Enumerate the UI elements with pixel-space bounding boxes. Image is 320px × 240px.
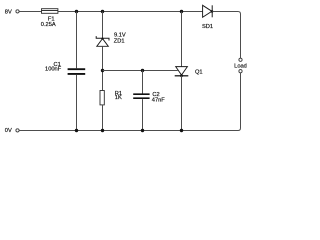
node Load bottom terminal [239, 70, 242, 73]
wire C2 branch lower [142, 99, 144, 130]
fuse F1 [41, 9, 58, 28]
svg-text:1K: 1K [115, 95, 122, 101]
node 0V terminal [5, 128, 19, 134]
wire C2 branch upper [142, 71, 144, 94]
node junction dot top / C1 [75, 10, 78, 13]
node junction dot bottom / C1 [75, 129, 78, 132]
svg-text:9.1V: 9.1V [114, 32, 126, 38]
wire C1 branch upper [76, 12, 78, 69]
capacitor C2 [133, 92, 165, 103]
node Load top terminal [239, 58, 242, 61]
node junction dot gate / ZD1-R1 [101, 69, 104, 72]
wire top rail right + corner to Load [213, 12, 241, 59]
zener diode ZD1 [96, 32, 126, 46]
svg-text:0V: 0V [5, 128, 12, 134]
wire gate to Q1 [103, 70, 178, 72]
node junction dot bottom / R1 [101, 129, 104, 132]
resistor R1 [100, 91, 122, 105]
node 8V terminal [5, 9, 19, 15]
wire ZD1 branch upper [102, 12, 104, 38]
svg-text:Load: Load [234, 64, 247, 70]
node junction dot bottom / Q1 [180, 129, 183, 132]
wire top rail middle [58, 11, 203, 13]
wire R1 to bottom rail [102, 105, 104, 131]
svg-text:100nF: 100nF [45, 67, 62, 73]
wire C1 branch lower [76, 75, 78, 131]
svg-text:0.25A: 0.25A [41, 22, 56, 28]
wire Q1 to bottom rail [181, 76, 183, 131]
svg-text:Q1: Q1 [195, 70, 203, 76]
node junction dot top / ZD1 [101, 10, 104, 13]
node junction dot bottom / C2 [141, 129, 144, 132]
svg-text:ZD1: ZD1 [114, 39, 125, 45]
svg-text:SD1: SD1 [202, 24, 213, 30]
wire load bottom + bottom rail [19, 73, 240, 131]
wire Q1 branch upper [181, 12, 183, 67]
capacitor C1 [45, 62, 85, 74]
svg-text:8V: 8V [5, 9, 12, 15]
wire top rail left [19, 11, 41, 13]
thyristor Q1 [175, 67, 203, 78]
node junction dot top / Q1 [180, 10, 183, 13]
svg-text:47nF: 47nF [152, 97, 165, 103]
node junction dot gate / C2 [141, 69, 144, 72]
diode SD1 [202, 5, 213, 30]
wire ZD1 to R1 through gate node [102, 46, 104, 90]
